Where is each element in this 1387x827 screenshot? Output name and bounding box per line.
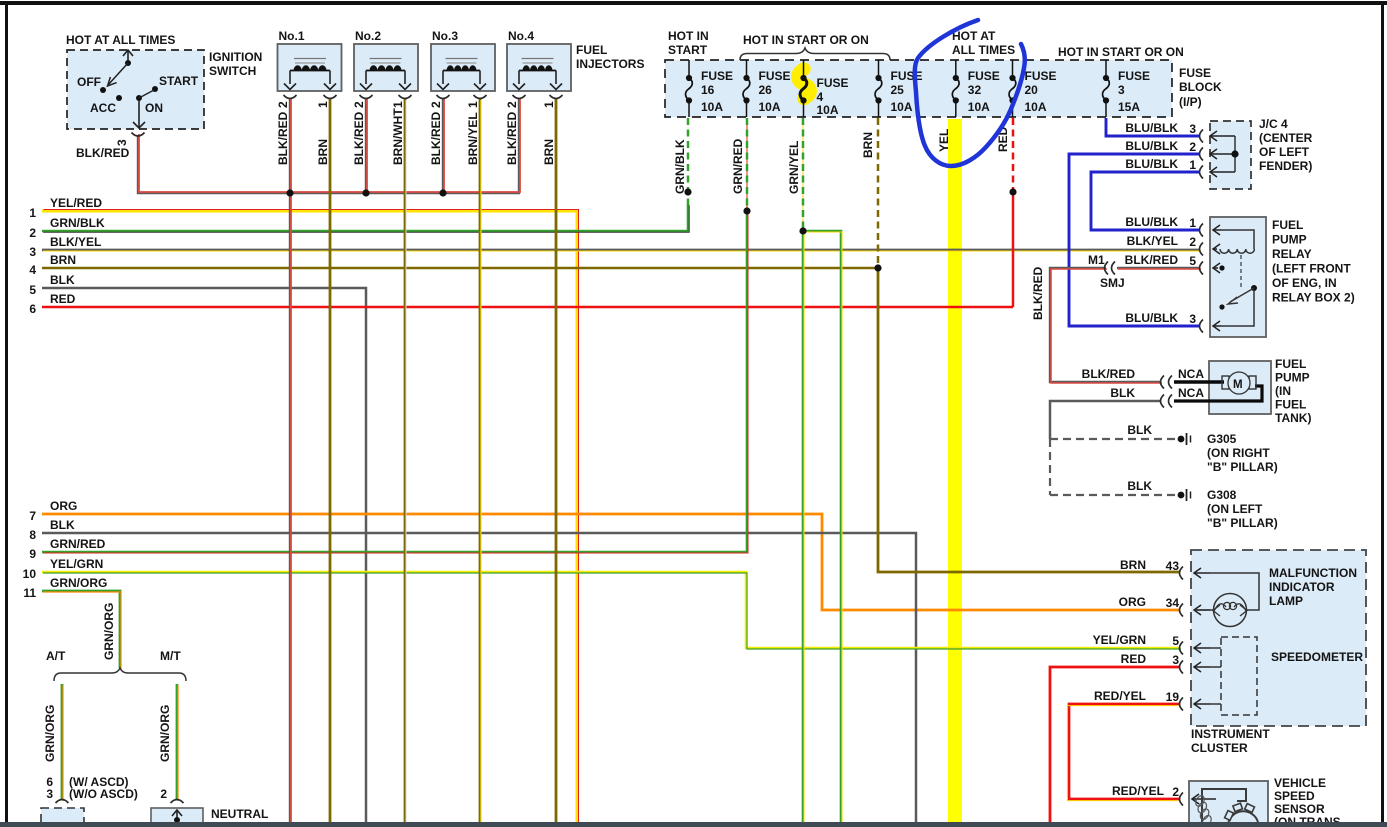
svg-text:START: START [668,43,708,57]
svg-text:HOT IN START OR ON: HOT IN START OR ON [743,33,869,47]
svg-text:SENSOR: SENSOR [1274,802,1325,816]
svg-text:GRN/BLK: GRN/BLK [673,139,687,194]
svg-text:BLK/YEL: BLK/YEL [50,235,101,249]
svg-text:(I/P): (I/P) [1179,95,1202,109]
svg-text:BLK: BLK [1110,386,1135,400]
svg-text:SPEED: SPEED [1274,789,1315,803]
svg-text:OF ENG, IN: OF ENG, IN [1272,276,1337,290]
svg-text:A/T: A/T [46,649,66,663]
svg-text:(W/O ASCD): (W/O ASCD) [69,787,138,801]
svg-text:ON: ON [145,101,163,115]
svg-text:2: 2 [1172,785,1179,799]
svg-text:FUSE: FUSE [891,69,923,83]
svg-text:BLU/BLK: BLU/BLK [1125,157,1178,171]
svg-text:1: 1 [1189,216,1196,230]
svg-text:ALL TIMES: ALL TIMES [952,43,1015,57]
svg-text:G305: G305 [1207,432,1237,446]
svg-text:HOT IN: HOT IN [668,29,709,43]
svg-text:HOT AT: HOT AT [952,29,996,43]
svg-text:M: M [1233,379,1243,391]
svg-text:1: 1 [391,101,405,108]
svg-text:2: 2 [29,226,36,240]
svg-text:IGNITION: IGNITION [209,50,262,64]
svg-text:2: 2 [276,101,290,108]
svg-text:BLU/BLK: BLU/BLK [1125,215,1178,229]
svg-text:FUSE: FUSE [817,76,849,90]
svg-text:BLK/RED: BLK/RED [1125,253,1179,267]
svg-text:11: 11 [23,586,36,600]
svg-text:No.1: No.1 [279,29,305,43]
svg-text:3: 3 [1172,653,1179,667]
svg-text:BLK: BLK [1127,423,1152,437]
svg-text:G308: G308 [1207,488,1237,502]
svg-text:GRN/ORG: GRN/ORG [158,705,172,762]
svg-text:3: 3 [46,787,53,801]
svg-text:3: 3 [1189,122,1196,136]
svg-text:(ON LEFT: (ON LEFT [1207,502,1263,516]
svg-text:3: 3 [1118,83,1125,97]
svg-text:8: 8 [29,528,36,542]
svg-text:YEL: YEL [937,129,951,152]
svg-text:10A: 10A [817,103,839,117]
svg-text:BLK/RED: BLK/RED [1031,266,1045,320]
svg-text:2: 2 [160,787,167,801]
svg-text:GRN/RED: GRN/RED [731,138,745,194]
svg-text:RED/YEL: RED/YEL [1112,784,1164,798]
svg-text:5: 5 [1172,634,1179,648]
svg-text:SPEEDOMETER: SPEEDOMETER [1271,650,1363,664]
svg-text:INSTRUMENT: INSTRUMENT [1191,727,1270,741]
svg-text:CLUSTER: CLUSTER [1191,741,1248,755]
svg-text:No.4: No.4 [508,29,534,43]
svg-text:16: 16 [701,83,715,97]
svg-text:M/T: M/T [160,649,181,663]
svg-text:GRN/ORG: GRN/ORG [102,603,116,660]
svg-text:BRN: BRN [861,132,875,158]
svg-text:NCA: NCA [1178,386,1204,400]
svg-text:No.2: No.2 [355,29,381,43]
svg-text:25: 25 [891,83,905,97]
svg-text:YEL/GRN: YEL/GRN [1093,633,1146,647]
svg-text:(CENTER: (CENTER [1259,131,1313,145]
svg-text:GRN/ORG: GRN/ORG [50,576,107,590]
svg-text:BRN: BRN [316,139,330,165]
svg-text:32: 32 [968,83,982,97]
svg-text:10: 10 [23,567,37,581]
svg-text:BLU/BLK: BLU/BLK [1125,139,1178,153]
svg-text:LAMP: LAMP [1269,594,1303,608]
svg-text:FUSE: FUSE [701,69,733,83]
svg-text:10A: 10A [968,100,990,114]
svg-text:6: 6 [29,302,36,316]
svg-text:PUMP: PUMP [1272,233,1307,247]
svg-text:No.3: No.3 [432,29,458,43]
svg-text:NCA: NCA [1178,367,1204,381]
svg-text:(IN: (IN [1275,384,1291,398]
svg-text:BLK: BLK [50,518,75,532]
svg-text:7: 7 [29,509,36,523]
svg-text:BLK/RED: BLK/RED [505,111,519,165]
svg-text:RELAY BOX 2): RELAY BOX 2) [1272,291,1355,305]
svg-text:RELAY: RELAY [1272,247,1312,261]
svg-text:FUSE: FUSE [968,69,1000,83]
svg-text:SWITCH: SWITCH [209,64,256,78]
svg-text:M1: M1 [1088,253,1105,267]
svg-text:10A: 10A [891,100,913,114]
svg-text:YEL/GRN: YEL/GRN [50,557,103,571]
svg-text:2: 2 [352,101,366,108]
svg-text:3: 3 [1189,312,1196,326]
svg-text:BLU/BLK: BLU/BLK [1125,311,1178,325]
svg-text:VEHICLE: VEHICLE [1274,776,1326,790]
svg-text:2: 2 [505,101,519,108]
svg-text:GRN/BLK: GRN/BLK [50,216,105,230]
svg-text:10A: 10A [759,100,781,114]
svg-text:BRN/WHT: BRN/WHT [391,108,405,165]
svg-text:START: START [159,74,199,88]
svg-text:2: 2 [1189,235,1196,249]
svg-text:2: 2 [429,101,443,108]
svg-text:BLK/YEL: BLK/YEL [1127,234,1178,248]
svg-text:GRN/YEL: GRN/YEL [787,141,801,194]
svg-text:TANK): TANK) [1275,411,1311,425]
svg-text:ACC: ACC [90,101,116,115]
svg-text:BLK/RED: BLK/RED [429,111,443,165]
svg-text:FUSE: FUSE [1118,69,1150,83]
svg-text:3: 3 [29,245,36,259]
svg-text:FUEL: FUEL [576,43,607,57]
svg-text:GRN/RED: GRN/RED [50,537,106,551]
svg-text:1: 1 [316,101,330,108]
svg-text:NEUTRAL: NEUTRAL [211,807,268,821]
svg-text:BLOCK: BLOCK [1179,80,1222,94]
svg-text:SMJ: SMJ [1100,276,1125,290]
svg-text:BRN/YEL: BRN/YEL [466,112,480,165]
svg-text:BLK/RED: BLK/RED [276,111,290,165]
svg-text:BRN: BRN [542,139,556,165]
svg-text:"B" PILLAR): "B" PILLAR) [1207,460,1278,474]
svg-text:5: 5 [29,283,36,297]
svg-text:BLK: BLK [1127,479,1152,493]
svg-text:3: 3 [115,139,129,146]
svg-text:FENDER): FENDER) [1259,159,1312,173]
svg-text:15A: 15A [1118,100,1140,114]
svg-text:INJECTORS: INJECTORS [576,57,644,71]
svg-text:FUSE: FUSE [759,69,791,83]
svg-text:OF LEFT: OF LEFT [1259,145,1310,159]
svg-text:MALFUNCTION: MALFUNCTION [1269,566,1357,580]
svg-text:BRN: BRN [50,253,76,267]
svg-text:10A: 10A [701,100,723,114]
svg-text:2: 2 [1189,140,1196,154]
svg-text:4: 4 [29,263,36,277]
svg-text:BLU/BLK: BLU/BLK [1125,121,1178,135]
svg-text:34: 34 [1166,596,1180,610]
svg-text:19: 19 [1166,690,1180,704]
svg-text:HOT AT ALL TIMES: HOT AT ALL TIMES [66,33,175,47]
svg-text:OFF: OFF [77,75,101,89]
svg-text:J/C 4: J/C 4 [1259,117,1288,131]
svg-text:(ON RIGHT: (ON RIGHT [1207,446,1270,460]
svg-text:YEL/RED: YEL/RED [50,196,102,210]
svg-text:FUEL: FUEL [1275,357,1306,371]
svg-text:BLK: BLK [50,273,75,287]
svg-text:1: 1 [1189,158,1196,172]
svg-text:BRN: BRN [1120,558,1146,572]
svg-text:BLK/RED: BLK/RED [352,111,366,165]
svg-text:"B" PILLAR): "B" PILLAR) [1207,516,1278,530]
svg-text:HOT IN START OR ON: HOT IN START OR ON [1058,45,1184,59]
svg-text:FUSE: FUSE [1179,66,1211,80]
svg-text:FUEL: FUEL [1272,218,1303,232]
svg-text:9: 9 [29,547,36,561]
svg-text:RED: RED [1121,652,1147,666]
svg-text:GRN/ORG: GRN/ORG [43,705,57,762]
svg-text:BLK/RED: BLK/RED [76,146,130,160]
svg-text:43: 43 [1166,559,1180,573]
svg-text:RED/YEL: RED/YEL [1094,689,1146,703]
svg-text:5: 5 [1189,254,1196,268]
svg-text:1: 1 [29,206,36,220]
svg-text:PUMP: PUMP [1275,371,1310,385]
svg-text:1: 1 [542,101,556,108]
svg-text:26: 26 [759,83,773,97]
svg-text:(LEFT FRONT: (LEFT FRONT [1272,262,1351,276]
svg-text:ORG: ORG [1119,595,1146,609]
svg-text:INDICATOR: INDICATOR [1269,580,1335,594]
svg-text:ORG: ORG [50,499,77,513]
svg-text:20: 20 [1025,83,1039,97]
svg-text:BLK/RED: BLK/RED [1082,367,1136,381]
svg-text:FUSE: FUSE [1025,69,1057,83]
svg-text:FUEL: FUEL [1275,398,1306,412]
svg-text:RED: RED [50,292,76,306]
svg-text:10A: 10A [1025,100,1047,114]
svg-text:1: 1 [466,101,480,108]
svg-text:4: 4 [817,90,824,104]
